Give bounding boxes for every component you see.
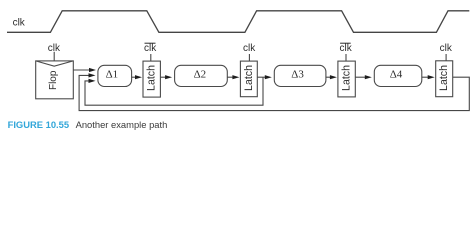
wire feedback inner (from latch L2 output) — [85, 77, 263, 105]
arrowhead into latch L3 — [330, 75, 337, 79]
clock waveform clk — [7, 11, 469, 33]
svg-text:clk: clk — [440, 43, 453, 54]
svg-text:Δ3: Δ3 — [291, 69, 304, 81]
arrowhead into delta4 — [365, 75, 372, 79]
delay block D2 — [175, 65, 228, 86]
delay block D3 — [274, 65, 326, 86]
svg-text:clk: clk — [144, 43, 157, 54]
wire latch L1 to delta2 — [160, 76, 166, 78]
wire delta1 to latch L1 — [132, 76, 136, 78]
latch L3 — [338, 61, 355, 97]
arrowhead into delta2 — [165, 75, 172, 79]
arrowhead into latch L4 — [428, 75, 435, 79]
latch L4 — [436, 61, 453, 97]
svg-text:Flop: Flop — [48, 70, 59, 90]
wire flop output to delta1 — [73, 69, 90, 71]
delay block D1 — [98, 65, 132, 86]
svg-text:Another example path: Another example path — [76, 119, 168, 130]
wire feedback outer (from latch L4 output) — [79, 75, 469, 110]
flop F1 — [36, 61, 74, 99]
wire delta2 to latch L2 — [227, 76, 233, 78]
clkb pin label (latch L1) — [144, 43, 157, 61]
wire delta4 to latch L4 — [422, 76, 429, 78]
svg-text:Latch: Latch — [438, 65, 450, 91]
svg-text:Latch: Latch — [243, 65, 255, 91]
svg-text:Δ2: Δ2 — [194, 69, 207, 81]
svg-text:clk: clk — [243, 43, 256, 54]
arrowhead into delta1 top input — [89, 68, 96, 72]
svg-text:Latch: Latch — [341, 65, 353, 91]
latch L2 — [240, 61, 257, 97]
svg-text:FIGURE 10.55: FIGURE 10.55 — [8, 119, 69, 130]
svg-text:clk: clk — [13, 18, 26, 29]
svg-text:Δ1: Δ1 — [106, 69, 119, 81]
latch L1 — [143, 61, 160, 97]
clk pin label (flop) — [48, 43, 61, 61]
clk pin label (latch L2) — [243, 43, 256, 61]
svg-text:Latch: Latch — [146, 65, 158, 91]
arrowhead into delta1 bottom input — [89, 79, 96, 83]
clk pin label (latch L4) — [440, 43, 453, 61]
wire latch L2 to delta3 — [257, 76, 266, 78]
clkb pin label (latch L3) — [339, 43, 352, 61]
wire delta3 to latch L3 — [326, 76, 331, 78]
arrowhead into delta1 middle input — [89, 73, 96, 77]
arrowhead into latch L2 — [232, 75, 239, 79]
arrowhead into delta3 — [265, 75, 272, 79]
arrowhead into latch L1 — [135, 75, 142, 79]
wire latch L3 to delta4 — [355, 76, 366, 78]
delay block D4 — [374, 65, 422, 86]
svg-text:Δ4: Δ4 — [390, 69, 403, 81]
svg-text:clk: clk — [339, 43, 352, 54]
